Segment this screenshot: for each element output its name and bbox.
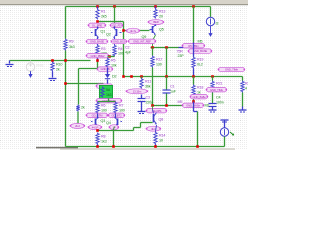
svg-text:10: 10	[159, 139, 163, 143]
net label GND_TIME	[219, 67, 245, 71]
wire y21 segment	[98, 21, 124, 23]
resistor R5	[106, 58, 109, 68]
net label below Q1	[97, 38, 99, 45]
resistor R2	[64, 39, 67, 51]
svg-text:20: 20	[159, 15, 163, 19]
resistor R15	[96, 133, 99, 145]
svg-text:23P: 23P	[178, 54, 185, 58]
ground below R10	[49, 78, 57, 80]
diode D2	[107, 68, 109, 75]
wire top supply bus	[66, 6, 211, 8]
svg-text:2k: 2k	[56, 68, 60, 72]
svg-text:R11: R11	[145, 80, 151, 84]
svg-text:R5: R5	[111, 59, 116, 63]
svg-text:GD_P2: GD_P2	[112, 23, 121, 27]
offpage ellipse x78	[71, 123, 85, 128]
I2 green arrow	[230, 132, 234, 135]
wire I2 to bottom bus	[224, 137, 226, 147]
junction y105 x166	[165, 104, 168, 107]
svg-text:C2: C2	[125, 46, 130, 50]
wire x152 to y105	[152, 68, 154, 106]
wire box to split	[108, 99, 110, 102]
capacitor C4	[212, 93, 214, 104]
svg-text:44.1P: 44.1P	[92, 125, 99, 129]
wire y83 link	[66, 83, 104, 85]
offpage label BER	[149, 20, 164, 25]
I2 top bar	[221, 119, 229, 121]
resistor R21	[212, 77, 214, 81]
wire jog to x197	[193, 102, 195, 112]
junction mid bus x131	[130, 75, 133, 78]
transistor Q2	[114, 27, 116, 29]
net label mid1	[98, 67, 113, 71]
junction y60 x65	[64, 59, 67, 62]
svg-text:2k5: 2k5	[101, 15, 107, 19]
svg-text:100: 100	[101, 109, 107, 113]
svg-text:R21: R21	[216, 82, 222, 86]
ghost source V1	[26, 63, 34, 71]
net label below Q2	[112, 39, 127, 43]
capacitor C1	[166, 77, 168, 90]
svg-text:Q1: Q1	[101, 30, 106, 34]
net label GND_PREB	[87, 54, 109, 58]
wire y130 base link	[98, 130, 134, 132]
junction bottom bus x113	[112, 145, 115, 148]
svg-text:C1: C1	[170, 85, 175, 89]
svg-text:M9: M9	[178, 100, 183, 104]
ground below C3	[138, 111, 146, 113]
capacitor C3	[141, 95, 143, 99]
wire y68 elbow	[79, 68, 98, 70]
wire Q3 emitter	[97, 127, 99, 131]
junction mid bus x141	[140, 75, 143, 78]
junction top bus x97	[96, 5, 99, 8]
svg-text:R17: R17	[156, 58, 162, 62]
junction y56	[108, 55, 111, 58]
wire x193 vertical green	[193, 7, 195, 43]
resistor R11	[141, 77, 143, 79]
svg-text:220p: 220p	[146, 101, 154, 105]
svg-text:2k.2: 2k.2	[75, 124, 80, 128]
junction x97 y60	[96, 59, 99, 62]
resistor R7	[114, 102, 117, 114]
junction y105 x152	[151, 104, 154, 107]
resistor R1	[97, 7, 99, 9]
wire y47 segment	[151, 47, 179, 49]
ground GL left end of y60	[9, 61, 11, 64]
wire x123 vertical	[123, 22, 125, 77]
svg-text:GND_TIMe: GND_TIMe	[210, 88, 224, 92]
wire R23 down	[242, 93, 244, 107]
junction top bus x193	[192, 5, 195, 8]
net label GD_BTM1	[87, 113, 108, 117]
ghost source arrow	[30, 71, 32, 74]
svg-text:Q5: Q5	[159, 28, 164, 32]
wire y56 to chain	[108, 56, 111, 58]
offpage label left	[89, 125, 102, 130]
junction x97 y130	[96, 129, 99, 132]
svg-text:GND_B: GND_B	[101, 67, 110, 71]
svg-text:0L2: 0L2	[197, 63, 203, 67]
svg-text:R13: R13	[159, 10, 165, 14]
wire x193 vertical blue	[193, 43, 195, 57]
offpage label on base wire	[127, 28, 140, 33]
junction mid bus x123	[122, 75, 125, 78]
resistor R10	[51, 62, 54, 72]
wire mid bus y76	[124, 76, 243, 78]
wire R3 bottom to y60	[97, 57, 99, 61]
svg-text:4k.7e: 4k.7e	[130, 29, 137, 33]
svg-text:100n: 100n	[216, 101, 224, 105]
svg-text:R18: R18	[197, 86, 203, 90]
wire R18 to node	[193, 97, 195, 102]
resistor R3	[96, 45, 99, 57]
wire bottom ground bus	[66, 146, 225, 148]
transistor Q3	[97, 114, 99, 119]
wire R19 to mid bus	[193, 69, 195, 77]
net label GND_INT_REF	[129, 39, 156, 43]
transistor Q5	[155, 25, 157, 27]
window top bar	[0, 0, 248, 5]
wire Q4 emitter to bus	[114, 127, 115, 130]
svg-text:GND_BASE: GND_BASE	[193, 49, 207, 53]
net label above node	[191, 95, 208, 99]
svg-text:R14: R14	[159, 134, 165, 138]
svg-text:M5: M5	[198, 40, 203, 44]
net label 41k	[147, 109, 167, 113]
svg-text:75R: 75R	[177, 50, 184, 54]
svg-text:R8: R8	[101, 135, 106, 139]
svg-text:R4: R4	[118, 47, 123, 51]
wire stair to Q8 base	[133, 128, 135, 131]
current source I2	[224, 121, 226, 128]
junction bottom bus x155	[154, 145, 157, 148]
svg-text:4pF: 4pF	[125, 51, 132, 55]
svg-text:GND_INT_REF: GND_INT_REF	[133, 39, 151, 43]
resistor R19	[192, 57, 195, 69]
wire Q5 base y30	[124, 30, 150, 32]
offpage label 13.15m	[127, 89, 148, 94]
window bottom bar	[60, 148, 235, 150]
offpage label right	[110, 125, 119, 130]
svg-text:R7: R7	[119, 104, 124, 108]
current source I5	[206, 17, 214, 25]
svg-text:130: 130	[156, 63, 162, 67]
junction x97 y21	[96, 20, 99, 23]
junction x193 y101	[192, 100, 195, 103]
junction y47 x152	[151, 46, 154, 49]
svg-text:C3: C3	[146, 96, 151, 100]
svg-text:100: 100	[119, 109, 125, 113]
junction top bus x155	[154, 5, 157, 8]
svg-text:R9: R9	[69, 40, 74, 44]
svg-text:1k3: 1k3	[106, 93, 111, 97]
svg-text:1uF: 1uF	[170, 90, 177, 94]
wire x114 vertical	[114, 7, 116, 27]
net label right A	[183, 44, 205, 48]
I5 arrow	[210, 26, 212, 33]
svg-text:4: 4	[245, 87, 247, 91]
svg-text:Q2: Q2	[106, 33, 111, 37]
svg-text:R6: R6	[101, 104, 106, 108]
transistor Q4	[115, 114, 117, 119]
resistor R12 on x78	[76, 105, 79, 112]
svg-text:Q4: Q4	[106, 121, 111, 125]
junction x65 y83	[64, 82, 67, 85]
svg-text:GND_PRE2: GND_PRE2	[91, 54, 105, 58]
junction x123 y30	[122, 29, 125, 32]
svg-text:GD_BT2: GD_BT2	[112, 113, 123, 117]
junction y60-R10	[51, 59, 54, 62]
ground below C4	[209, 109, 217, 111]
net label GD_BTM2	[109, 113, 125, 117]
transistor Q1	[97, 27, 99, 29]
net label at node	[183, 103, 204, 107]
svg-text:Q8: Q8	[159, 118, 164, 122]
svg-text:3k3: 3k3	[69, 45, 75, 49]
wire to I5	[210, 7, 212, 18]
svg-text:GND_B18e: GND_B18e	[192, 95, 206, 99]
offpage label 4k0	[147, 126, 161, 131]
svg-text:R2: R2	[245, 82, 248, 86]
grid background	[0, 0, 248, 150]
junction mid bus x212	[211, 75, 214, 78]
wire y105 segment	[153, 105, 194, 107]
junction bottom bus x97	[96, 145, 99, 148]
ground below R23	[239, 109, 247, 111]
net label GL_PRE	[89, 23, 106, 27]
wire y56 jog	[111, 56, 115, 58]
wire x166 upper	[166, 48, 168, 77]
svg-text:GND_BS2: GND_BS2	[113, 40, 126, 44]
svg-text:BER: BER	[153, 20, 158, 24]
wire Q8 emitter	[156, 125, 157, 132]
svg-text:100: 100	[118, 52, 124, 56]
junction mid bus x193	[192, 75, 195, 78]
junction top bus x114	[113, 5, 116, 8]
net label below box	[97, 99, 122, 103]
svg-text:D2: D2	[112, 75, 117, 79]
junction y47 x166	[165, 46, 168, 49]
transistor Q8	[152, 106, 154, 110]
net label mid2	[97, 84, 113, 88]
wire y47 blue extension	[179, 47, 189, 49]
resistor R4	[113, 45, 116, 57]
resistor R13	[155, 7, 157, 9]
svg-text:10k: 10k	[111, 64, 117, 68]
resistor R23	[241, 81, 244, 93]
svg-text:1k3: 1k3	[101, 140, 107, 144]
wire base bus y60	[10, 60, 91, 62]
svg-text:R10: R10	[56, 63, 62, 67]
svg-text:13.15m: 13.15m	[133, 89, 142, 93]
wire x78 branch	[78, 69, 80, 105]
net label right B	[189, 49, 212, 53]
wire left vertical rail x65 upper	[65, 7, 67, 39]
svg-text:R3: R3	[101, 47, 106, 51]
resistor R17	[152, 48, 154, 56]
svg-text:36k: 36k	[145, 85, 151, 89]
svg-text:C4: C4	[216, 96, 221, 100]
resistor R14	[154, 132, 157, 145]
svg-text:I3: I3	[216, 22, 219, 26]
svg-text:Q3: Q3	[101, 119, 106, 123]
wire x97 drop to y68	[97, 61, 99, 69]
svg-text:GND_TIMe: GND_TIMe	[225, 68, 239, 72]
resistor R6	[96, 102, 99, 114]
svg-text:R1: R1	[101, 10, 106, 14]
wire left vertical rail x65 lower	[65, 51, 67, 147]
svg-text:GND_BASE: GND_BASE	[90, 40, 104, 44]
svg-text:2k: 2k	[81, 106, 85, 110]
net label GND_TIME mid	[207, 88, 227, 92]
resistor R18	[193, 77, 195, 85]
junction bottom bus x197	[196, 145, 199, 148]
wire Q5 emitter	[153, 35, 156, 41]
net label GD2	[111, 23, 123, 27]
wire mid bus corner x242	[242, 77, 244, 81]
highlight box R5A	[100, 86, 113, 99]
svg-text:Q9: Q9	[142, 35, 147, 39]
svg-text:R19: R19	[197, 58, 203, 62]
svg-text:0Vdc: 0Vdc	[36, 64, 44, 68]
junction mid bus x166	[165, 75, 168, 78]
